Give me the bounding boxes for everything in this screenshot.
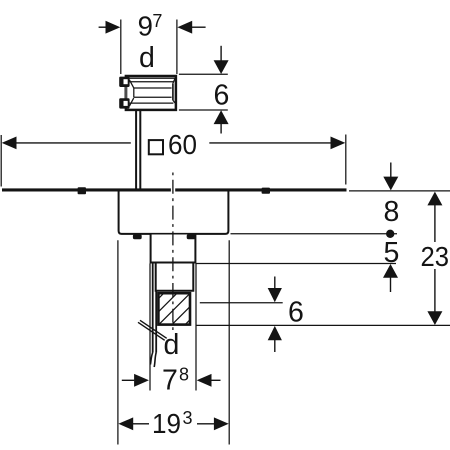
dimension 6 (pipe) reference lines xyxy=(200,302,283,304)
square symbol xyxy=(149,140,163,154)
mounting clip left xyxy=(78,187,86,194)
svg-text:23: 23 xyxy=(421,241,450,272)
pipe cross-section (hatched) xyxy=(158,293,190,324)
supply pipe (broken, triple line) xyxy=(150,264,156,391)
break mark on pipe xyxy=(138,320,167,340)
plate gap at centerline xyxy=(171,188,175,192)
actuator stem (double line) xyxy=(135,110,141,189)
dimension 7-8 arrows xyxy=(122,374,221,387)
svg-text:3: 3 xyxy=(183,408,193,428)
dimension 19-3 line and arrows xyxy=(118,417,228,430)
screw left xyxy=(133,234,142,239)
dimension 5 arrow xyxy=(383,264,398,292)
dimension 23 line and arrows xyxy=(427,192,442,325)
dimension square-60 extension lines xyxy=(1,135,346,187)
svg-text:6: 6 xyxy=(214,79,230,111)
dimension 6 (cap height) extension lines xyxy=(179,74,228,110)
cap left clip bottom xyxy=(119,98,129,108)
valve section middle xyxy=(156,264,194,291)
svg-text:9: 9 xyxy=(138,10,153,41)
housing box xyxy=(119,192,229,234)
dimension square-60 line and arrows xyxy=(2,137,346,150)
dimension 7-8 extension lines xyxy=(195,264,197,391)
cap left wall between clips xyxy=(124,87,127,99)
cap right inner wall xyxy=(172,84,174,100)
dimension 6 (pipe) arrows xyxy=(268,277,282,353)
actuator cap outer shell xyxy=(126,76,176,110)
svg-text:19: 19 xyxy=(152,408,181,439)
svg-text:8: 8 xyxy=(384,196,400,228)
sleeve bottom reference line xyxy=(196,263,396,265)
svg-text:d: d xyxy=(164,329,180,361)
reference dot xyxy=(386,230,394,238)
screw right xyxy=(187,234,196,239)
svg-text:d: d xyxy=(139,42,155,74)
cap internal section lines xyxy=(129,78,175,106)
svg-text:60: 60 xyxy=(168,129,197,160)
svg-text:7: 7 xyxy=(152,11,162,31)
dimension 19-3 extension lines xyxy=(118,240,229,444)
dimension 9-7 arrows and line xyxy=(99,21,206,34)
dimension 8 arrow xyxy=(383,163,398,191)
svg-text:6: 6 xyxy=(288,297,304,329)
cap left clip top xyxy=(119,77,129,87)
mounting clip right xyxy=(262,188,270,194)
box bottom reference line xyxy=(231,233,398,235)
plate reference line right xyxy=(349,190,450,192)
svg-text:8: 8 xyxy=(179,365,189,385)
dimension 9-7 extension lines xyxy=(121,20,177,75)
cover plate xyxy=(2,188,347,191)
svg-text:7: 7 xyxy=(162,365,178,397)
centerline (dash-dot) xyxy=(172,173,174,331)
dimension 6 (cap) arrows xyxy=(214,46,229,134)
connection sleeve upper xyxy=(151,235,196,263)
